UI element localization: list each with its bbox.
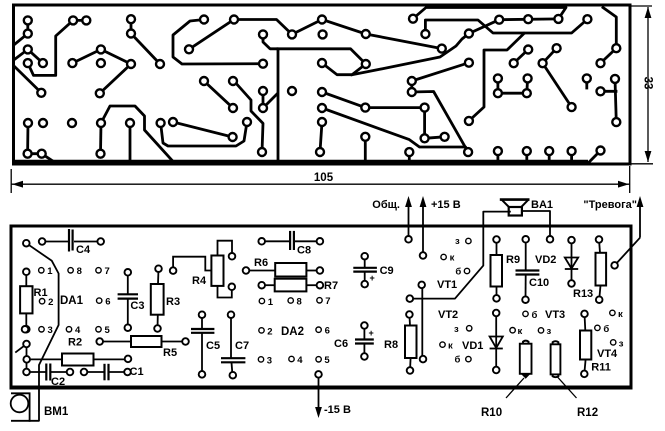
svg-text:к: к: [448, 341, 453, 352]
svg-text:C5: C5: [206, 340, 220, 352]
svg-text:R10: R10: [481, 407, 502, 419]
DA1 pin 8: [68, 266, 82, 277]
wire: [16, 344, 27, 352]
wire: [615, 79, 616, 122]
svg-text:4: 4: [297, 355, 303, 366]
svg-text:R5: R5: [163, 347, 177, 359]
diode VD1: [462, 313, 503, 370]
wire: [15, 49, 28, 59]
svg-text:2: 2: [48, 297, 53, 308]
net +15 V: [420, 196, 461, 256]
capacitor C9: [353, 256, 393, 284]
svg-text:BM1: BM1: [44, 406, 69, 418]
DA1 pin 7: [96, 266, 110, 277]
svg-text:4: 4: [75, 325, 81, 336]
svg-text:DA1: DA1: [60, 295, 84, 307]
DA2 pin 5: [316, 355, 331, 366]
wire: [26, 20, 29, 33]
DA1 pin 1: [39, 266, 54, 277]
wire: [421, 285, 423, 359]
resistor R13: [573, 240, 606, 301]
wire: [469, 19, 559, 34]
wire: [412, 63, 469, 92]
svg-text:105: 105: [314, 172, 334, 184]
resistor R8: [384, 315, 417, 371]
resistor R1: [20, 272, 47, 329]
wire: [173, 20, 263, 65]
svg-text:C10: C10: [529, 277, 549, 289]
svg-text:C3: C3: [130, 300, 144, 312]
wire: [603, 8, 616, 49]
capacitor C10: [516, 239, 550, 299]
wire: [601, 90, 617, 93]
net Common (Общ.): [372, 196, 412, 239]
transistor VT4: [595, 324, 624, 360]
wire: [514, 50, 529, 64]
wire: [322, 20, 442, 49]
transistor VT1: [437, 236, 471, 291]
trimmer R4: [173, 241, 232, 298]
svg-text:6: 6: [105, 297, 110, 308]
resistor R9: [491, 240, 521, 299]
svg-text:+: +: [370, 273, 375, 283]
svg-text:Общ.: Общ.: [372, 199, 400, 211]
PCB copper-side board outline: [14, 5, 631, 164]
DA2 pin 1: [259, 297, 274, 308]
svg-text:8: 8: [77, 266, 82, 277]
wire: [589, 151, 601, 163]
DA2 pin 2: [259, 326, 273, 337]
svg-text:R1: R1: [34, 287, 48, 299]
wire: [189, 20, 234, 50]
wire: [234, 20, 292, 35]
capacitor C4: [42, 229, 101, 256]
svg-text:з: з: [455, 236, 460, 247]
wire: [72, 49, 131, 64]
wire: [26, 123, 29, 154]
wire: [413, 8, 566, 19]
resistor R12: [551, 341, 599, 419]
wire: [496, 78, 499, 93]
DA2 pin 6: [316, 326, 330, 337]
svg-text:VT2: VT2: [438, 309, 458, 321]
wire: [99, 123, 102, 154]
wire: [101, 106, 174, 163]
resistor R10: [481, 341, 532, 419]
capacitor C7: [221, 315, 249, 376]
svg-text:33: 33: [642, 77, 654, 90]
DA2 pin 3: [258, 355, 272, 366]
capacitor C3: [118, 272, 145, 327]
svg-text:б: б: [603, 324, 609, 335]
svg-text:7: 7: [325, 296, 330, 307]
wire: [412, 92, 468, 153]
svg-text:C8: C8: [297, 245, 311, 257]
svg-text:1: 1: [47, 266, 53, 277]
svg-text:3: 3: [48, 325, 53, 336]
svg-text:VT4: VT4: [597, 348, 618, 360]
DA2 pin 7: [317, 296, 331, 307]
svg-text:7: 7: [105, 266, 110, 277]
svg-text:к: к: [518, 326, 523, 337]
svg-text:R8: R8: [384, 339, 398, 351]
DA2 pin 8: [288, 296, 302, 307]
wire: [585, 78, 588, 88]
resistor R7: [262, 279, 338, 292]
resistor R11: [580, 314, 611, 374]
wire: [234, 81, 263, 152]
net -15 V: [315, 374, 351, 418]
wire: [28, 154, 55, 163]
component-side wire pads: [22, 236, 618, 379]
wire: [26, 344, 28, 372]
svg-text:з: з: [619, 338, 624, 349]
diode VD2: [535, 240, 578, 283]
wire: [26, 243, 58, 421]
svg-text:3: 3: [267, 355, 272, 366]
wire: [570, 151, 573, 162]
wire: [131, 34, 160, 65]
capacitor C5: [191, 315, 220, 375]
svg-text:2: 2: [267, 326, 272, 337]
wire: [525, 151, 528, 162]
wire: [525, 78, 529, 93]
svg-text:R7: R7: [324, 280, 338, 292]
wire: [263, 34, 278, 162]
wire: [522, 211, 550, 239]
svg-text:R13: R13: [573, 288, 593, 300]
resistor R6: [246, 257, 320, 277]
dimension 105 (board width): [11, 166, 630, 193]
svg-text:"Тревога": "Тревога": [583, 199, 637, 211]
wire: [100, 64, 131, 93]
microphone BM1: [11, 393, 69, 421]
svg-text:VT3: VT3: [545, 309, 565, 321]
svg-text:5: 5: [324, 355, 330, 366]
DA1 pin 2: [39, 297, 53, 308]
svg-text:R6: R6: [254, 257, 268, 269]
capacitor C8: [262, 231, 320, 257]
wire: [28, 49, 43, 63]
wire: [161, 122, 247, 146]
svg-text:б: б: [455, 355, 461, 366]
wire: [73, 19, 86, 22]
svg-text:VD1: VD1: [462, 340, 483, 352]
wire: [320, 122, 322, 152]
DA2 pin 4: [289, 355, 304, 366]
ground trace along bottom edge: [14, 160, 588, 165]
svg-text:-15 В: -15 В: [324, 404, 351, 416]
svg-text:R12: R12: [577, 407, 598, 419]
wire: [130, 19, 133, 33]
capacitor C1: [84, 364, 144, 381]
wire: [28, 20, 73, 75]
dimension 33 (board height): [631, 6, 654, 164]
svg-text:R9: R9: [506, 254, 520, 266]
capacitor C2: [27, 364, 71, 389]
svg-text:к: к: [450, 253, 455, 264]
svg-text:C6: C6: [334, 338, 348, 350]
solder pads (copper side): [24, 15, 621, 158]
DA1 pin 5: [96, 325, 111, 336]
svg-text:5: 5: [105, 325, 111, 336]
svg-text:VT1: VT1: [437, 279, 457, 291]
svg-text:BA1: BA1: [531, 199, 553, 211]
wire: [278, 49, 366, 64]
svg-text:R11: R11: [591, 362, 611, 374]
svg-text:C4: C4: [76, 244, 91, 256]
wire: [15, 34, 28, 44]
wire: [322, 92, 445, 138]
wire: [364, 137, 367, 163]
wire: [322, 63, 366, 75]
resistor R5: [100, 336, 186, 359]
svg-text:+: +: [369, 328, 374, 338]
transistor VT2: [438, 309, 472, 366]
DA1 pin 4: [66, 325, 81, 336]
svg-text:1: 1: [268, 297, 274, 308]
svg-text:C7: C7: [235, 340, 249, 352]
resistor R3: [151, 269, 180, 329]
wire: [601, 48, 617, 63]
wire: [292, 20, 322, 35]
net "Alarm" (Тревога): [583, 196, 643, 265]
svg-text:+15 В: +15 В: [431, 199, 461, 211]
DA1 pin 6: [97, 297, 111, 308]
component-side board outline: [11, 226, 631, 388]
svg-text:C9: C9: [380, 265, 394, 277]
wire: [129, 123, 132, 163]
resistor R2: [27, 337, 128, 366]
svg-text:R2: R2: [68, 337, 82, 349]
speaker BA1: [500, 199, 553, 216]
svg-text:VD2: VD2: [535, 254, 556, 266]
wire: [173, 122, 233, 137]
wire: [498, 92, 527, 95]
svg-text:з: з: [454, 324, 459, 335]
svg-text:8: 8: [297, 296, 302, 307]
capacitor C6: [334, 326, 374, 357]
svg-text:б: б: [455, 267, 461, 278]
wire: [352, 34, 469, 75]
wire: [543, 63, 572, 107]
wire: [410, 212, 510, 299]
transistor VT3: [510, 309, 623, 337]
svg-text:DA2: DA2: [281, 326, 304, 338]
svg-text:R3: R3: [166, 296, 180, 308]
svg-text:6: 6: [325, 326, 330, 337]
wire: [15, 67, 41, 93]
svg-text:з: з: [547, 326, 552, 337]
wire: [469, 34, 524, 121]
wire: [543, 48, 557, 63]
DA1 pin 3: [39, 325, 53, 336]
wire: [548, 151, 551, 162]
svg-text:R4: R4: [192, 275, 207, 287]
wire: [322, 108, 468, 152]
wire: [204, 81, 233, 108]
svg-text:к: к: [618, 309, 623, 320]
wire: [496, 151, 499, 162]
wire: [263, 94, 277, 108]
wire: [425, 19, 587, 34]
svg-text:б: б: [532, 310, 538, 321]
wire: [262, 91, 265, 108]
wire: [408, 152, 411, 162]
svg-text:C2: C2: [51, 376, 65, 388]
